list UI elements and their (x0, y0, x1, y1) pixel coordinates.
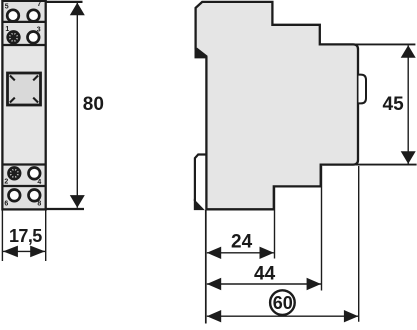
dim 44 line (207, 283, 321, 285)
bottom terminal strip (4, 165, 45, 209)
front view body outline (2, 1, 45, 209)
terminal circle 1 (hatched) (8, 32, 20, 44)
svg-text:7: 7 (37, 1, 41, 8)
dim 45 arrow up (401, 45, 416, 58)
terminal circle 3 (28, 32, 40, 44)
label window square (8, 73, 41, 105)
terminal circle 2 (hatched) (9, 168, 21, 180)
dim 45 line (407, 45, 409, 164)
dim 17,5 right extension line (45, 210, 47, 261)
side view top-left wedge (195, 48, 208, 59)
right latch bump (359, 75, 367, 104)
left extension line for 24/44/60 (205, 210, 207, 324)
separator line bottom rows (2, 185, 45, 187)
terminal circle 7 (28, 10, 40, 22)
svg-text:8: 8 (37, 201, 41, 208)
extension line x=274 for 24 (274, 188, 276, 259)
top terminal strip (4, 2, 45, 45)
svg-text:5: 5 (5, 4, 9, 11)
dim 45 bottom extension line (356, 164, 417, 166)
bottom DIN clip tab (195, 155, 207, 202)
dim 80 arrow up (70, 3, 85, 16)
terminal circle 4 (29, 168, 41, 180)
dim 80 bottom extension line (46, 208, 84, 210)
dim 45 arrow down (401, 151, 416, 164)
dim 80 top extension line (46, 1, 83, 3)
dim 45 top extension line (356, 43, 416, 45)
dim 24 arrow left (207, 247, 221, 259)
dim 24 line (207, 252, 274, 254)
svg-text:60: 60 (273, 293, 293, 313)
svg-text:24: 24 (231, 231, 253, 252)
dim 17,5 arrow right (30, 246, 45, 258)
svg-text:2: 2 (4, 178, 8, 185)
separator line top of bottom block (2, 163, 45, 165)
side view body outline (196, 2, 358, 209)
svg-text:4: 4 (37, 179, 41, 186)
dim 60 arrow left (207, 310, 221, 322)
dim 17,5 arrow left (3, 246, 18, 258)
dim 60 line (207, 315, 358, 317)
svg-text:3: 3 (37, 26, 41, 33)
svg-text:45: 45 (383, 94, 405, 115)
extension line x=358.7 for 60 (358, 166, 360, 322)
separator line bottom of top block (2, 44, 45, 46)
dim 60 arrow right (344, 310, 358, 322)
dim 24 arrow right (260, 247, 274, 259)
separator line row1/row2 top block (2, 21, 45, 23)
window corner tick top-left (10, 76, 15, 81)
terminal circle 8 (29, 190, 41, 202)
svg-text:44: 44 (254, 263, 276, 284)
window corner tick bottom-right (33, 98, 38, 103)
svg-text:80: 80 (83, 94, 104, 115)
dim 44 arrow right (307, 278, 321, 290)
dim 44 arrow left (207, 278, 221, 290)
terminal circle 5 (7, 10, 19, 22)
terminal circle 6 (9, 190, 21, 202)
dim 80 arrow down (70, 195, 85, 208)
svg-text:6: 6 (4, 201, 8, 208)
dim 80 line (76, 3, 78, 208)
dim 60 circle (270, 290, 295, 315)
svg-text:1: 1 (5, 26, 9, 33)
extension line x=321 for 44 (321, 166, 323, 291)
dim 17,5 line (3, 250, 45, 252)
svg-text:17,5: 17,5 (9, 226, 42, 246)
window corner tick bottom-left (10, 98, 15, 103)
dim 17,5 left extension line (1, 210, 3, 261)
window corner tick top-right (33, 76, 38, 81)
bottom tab foot (filled) (194, 199, 205, 210)
